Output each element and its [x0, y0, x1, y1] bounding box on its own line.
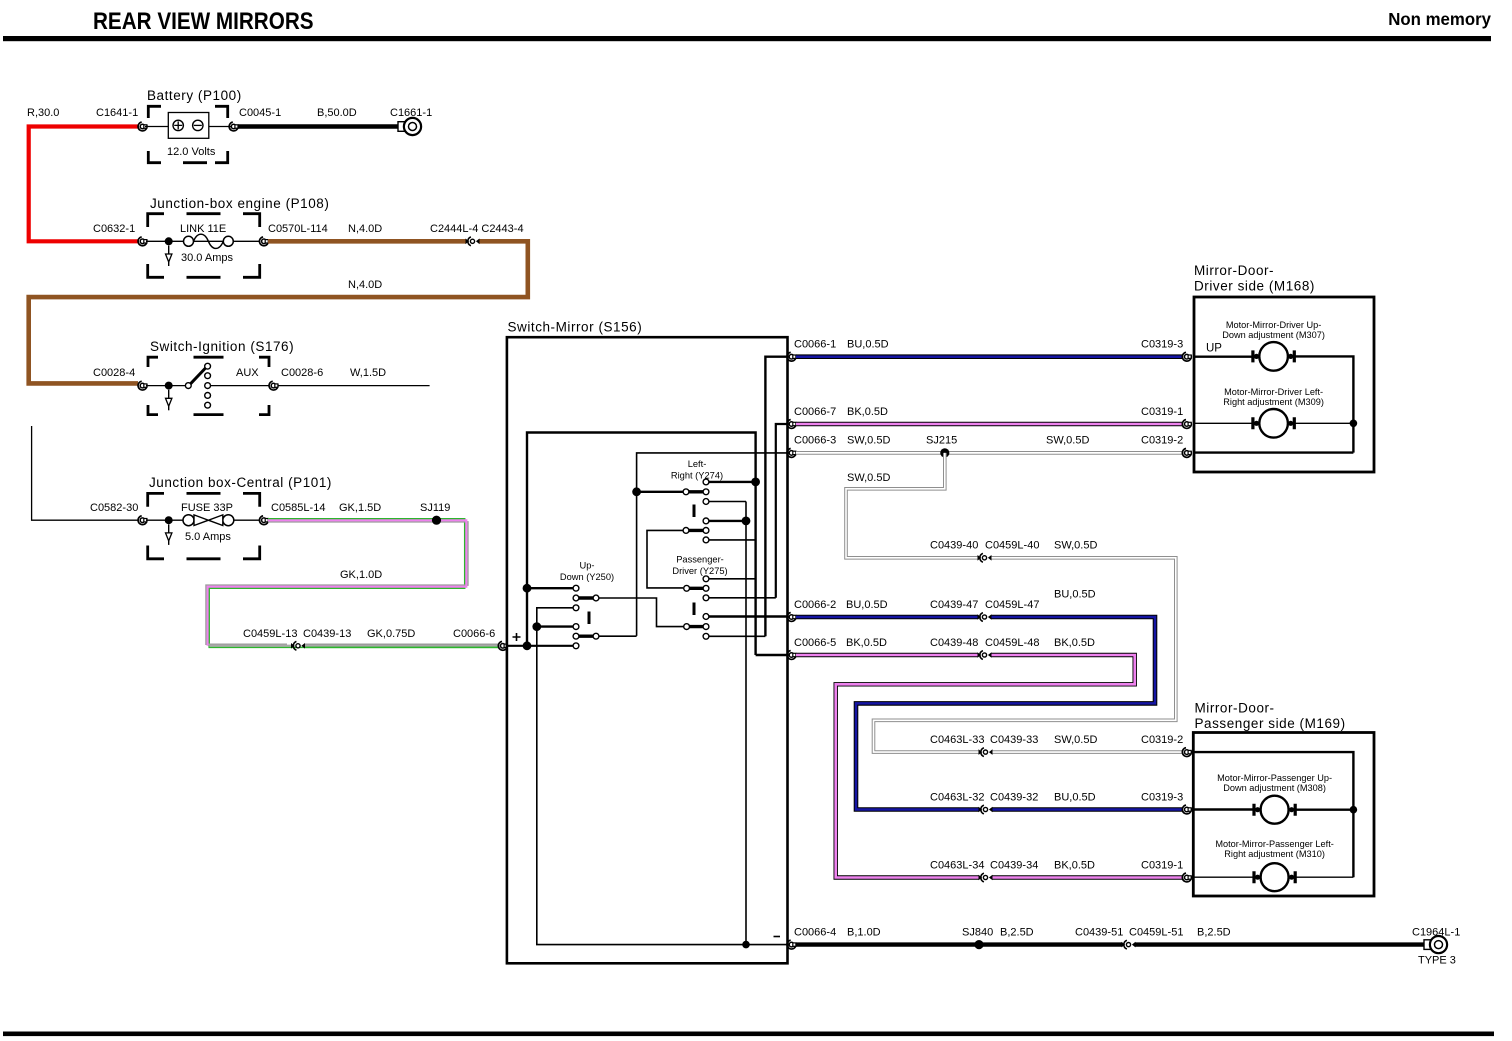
- svg-text:TYPE 3: TYPE 3: [1418, 955, 1456, 967]
- connector C0582-30: [138, 516, 147, 525]
- label M310: [1215, 839, 1333, 859]
- label BU,0.5D row1: [847, 339, 889, 351]
- connector C0066-1: [787, 352, 796, 361]
- label R,30.0: [27, 107, 59, 119]
- connector C0319-3 passenger: [1182, 805, 1191, 814]
- label BU,0.5D row7: [1054, 791, 1096, 803]
- svg-text:GK,0.75D: GK,0.75D: [367, 628, 415, 640]
- svg-text:C1641-1: C1641-1: [96, 107, 138, 119]
- svg-text:SW,0.5D: SW,0.5D: [1054, 540, 1097, 552]
- label B,1.0D: [847, 926, 881, 938]
- svg-text:C0319-2: C0319-2: [1141, 435, 1183, 447]
- svg-text:SJ119: SJ119: [420, 502, 450, 514]
- wire Y250 contact4 left: [537, 625, 573, 627]
- junction dot M168: [1350, 420, 1358, 428]
- svg-text:Junction-box engine (P108): Junction-box engine (P108): [150, 196, 329, 211]
- label 5.0 Amps: [185, 531, 231, 543]
- svg-text:Left-: Left-: [688, 459, 707, 469]
- wire GK,0.75D grey-green: [209, 644, 499, 647]
- label C0439-33: [990, 734, 1038, 746]
- wire Y275 contact C to C0066-2: [709, 615, 787, 617]
- svg-text:Motor-Mirror-Passenger Left-: Motor-Mirror-Passenger Left-: [1215, 839, 1333, 849]
- connector C0045-1: [229, 122, 238, 131]
- wire R,30.0 red from C1641-1 to C0632-1: [29, 127, 139, 242]
- label M309: [1223, 387, 1324, 407]
- junction dot Y274 bar: [632, 487, 641, 496]
- label Junction box-Central (P101): [149, 475, 332, 490]
- connector C0066-2: [787, 613, 796, 622]
- svg-text:C0319-3: C0319-3: [1141, 791, 1183, 803]
- svg-text:Down adjustment (M307): Down adjustment (M307): [1222, 330, 1325, 340]
- svg-text:C0439-33: C0439-33: [990, 734, 1038, 746]
- top rule: [3, 36, 1491, 41]
- wire M168 common bottom: [1194, 451, 1353, 453]
- fuse arrow S176: [166, 390, 172, 411]
- svg-text:W,1.5D: W,1.5D: [350, 367, 386, 379]
- connector C0319-2 passenger: [1182, 748, 1191, 757]
- splice SJ840: [974, 940, 983, 949]
- wire Y274 contact C right: [709, 520, 746, 522]
- svg-text:C0066-5: C0066-5: [794, 637, 836, 649]
- label SW,0.5D branch: [847, 472, 890, 484]
- svg-text:GK,1.0D: GK,1.0D: [340, 569, 382, 581]
- label C0066-2: [794, 599, 836, 611]
- svg-text:FUSE 33P: FUSE 33P: [181, 502, 233, 514]
- svg-text:B,50.0D: B,50.0D: [317, 107, 357, 119]
- label C0066-7: [794, 406, 836, 418]
- wire Y275 bar2 to Y250 link: [599, 598, 684, 627]
- svg-text:BU,0.5D: BU,0.5D: [1054, 589, 1096, 601]
- label minus: [774, 936, 781, 938]
- label C0439-51: [1075, 926, 1123, 938]
- motor M309: [1253, 409, 1294, 438]
- connector C0028-4: [138, 381, 147, 390]
- wire Y250 contact3 left: [537, 608, 573, 627]
- mirror-door driver M168 box: [1194, 297, 1374, 472]
- label Switch-Ignition (S176): [150, 339, 294, 354]
- svg-text:Down adjustment (M308): Down adjustment (M308): [1223, 783, 1326, 793]
- label 30.0 Amps: [181, 252, 233, 264]
- label B,2.5D first: [1000, 926, 1034, 938]
- label BU,0.5D row4: [846, 599, 888, 611]
- svg-text:C0439-40: C0439-40: [930, 540, 978, 552]
- connector C0066-5: [787, 651, 796, 660]
- label C0459L-40: [985, 540, 1039, 552]
- fuse arrow P101: [166, 524, 172, 545]
- wire M169 common top: [1193, 752, 1353, 877]
- label C2444L-4 C2443-4: [430, 223, 524, 235]
- svg-text:AUX: AUX: [236, 367, 259, 379]
- battery P100 dashed box: [148, 106, 227, 162]
- junction dot P101: [165, 516, 173, 524]
- contact Y275 C: [703, 614, 709, 620]
- wire Y274 bar to C0066-3 vertical: [637, 491, 683, 493]
- wire B,50.0D battery to ground ring: [238, 124, 399, 128]
- svg-text:Motor-Mirror-Driver Up-: Motor-Mirror-Driver Up-: [1226, 320, 1321, 330]
- splice SJ119: [432, 516, 441, 525]
- svg-text:BU,0.5D: BU,0.5D: [1054, 791, 1096, 803]
- switch-mirror S156 box: [507, 337, 788, 963]
- contact Y275 B: [703, 595, 709, 601]
- svg-text:C0570L-114: C0570L-114: [268, 223, 328, 235]
- svg-text:BK,0.5D: BK,0.5D: [1054, 859, 1095, 871]
- label C0582-30: [90, 502, 138, 514]
- svg-text:N,4.0D: N,4.0D: [348, 223, 382, 235]
- wire S156 internal C0066-1 feed: [765, 357, 787, 637]
- svg-text:C0459L-40: C0459L-40: [985, 540, 1039, 552]
- svg-text:C0319-2: C0319-2: [1141, 734, 1183, 746]
- svg-text:C0585L-14: C0585L-14: [271, 502, 325, 514]
- svg-text:BU,0.5D: BU,0.5D: [846, 599, 888, 611]
- wire Y274 contact B right: [709, 501, 746, 503]
- label GK,0.75D: [367, 628, 415, 640]
- junction dot Y274 C: [742, 517, 751, 526]
- label Battery (P100): [147, 88, 242, 103]
- svg-text:C0319-3: C0319-3: [1141, 339, 1183, 351]
- label Junction-box engine (P108): [150, 196, 329, 211]
- svg-text:GK,1.5D: GK,1.5D: [339, 502, 381, 514]
- switch bar Y275 lower: [684, 624, 709, 630]
- svg-text:C0066-3: C0066-3: [794, 435, 836, 447]
- svg-text:C0582-30: C0582-30: [90, 502, 138, 514]
- battery cell symbol: [145, 113, 231, 139]
- contact Y250 c3: [573, 605, 579, 611]
- svg-text:C0439-13: C0439-13: [303, 628, 351, 640]
- label C0632-1: [93, 223, 135, 235]
- label C0570L-114: [268, 223, 328, 235]
- label C0028-6: [281, 367, 323, 379]
- connector C0066-4: [787, 940, 796, 949]
- svg-text:Driver side (M168): Driver side (M168): [1194, 279, 1315, 294]
- svg-text:C0463L-33: C0463L-33: [930, 734, 984, 746]
- label BK,0.5D row8: [1054, 859, 1095, 871]
- inline connector C0439-51 C0459L-51: [1122, 940, 1136, 949]
- label C0066-4: [794, 926, 836, 938]
- svg-text:C0066-4: C0066-4: [794, 926, 836, 938]
- label C0439-40: [930, 540, 978, 552]
- wire Y250 bar2 right link: [599, 635, 637, 637]
- svg-text:Right (Y274): Right (Y274): [671, 471, 723, 481]
- label BK,0.5D row2: [847, 406, 888, 418]
- wire BU,0.5D driver up-down: [796, 354, 1183, 359]
- connector C0319-1: [1182, 420, 1191, 429]
- connector C0028-6: [269, 381, 278, 390]
- fuse arrow P108: [166, 246, 172, 267]
- inline connector C0439-48 C0459L-48: [978, 651, 992, 660]
- wire W,1.5D: [278, 385, 430, 387]
- label C1964L-1: [1412, 926, 1460, 938]
- svg-text:SW,0.5D: SW,0.5D: [847, 472, 890, 484]
- switch bar Y274 lower: [683, 528, 709, 534]
- ring terminal C1964L-1: [1424, 936, 1447, 953]
- svg-text:C0439-48: C0439-48: [930, 637, 978, 649]
- wire S156 internal minus bus: [537, 627, 787, 945]
- wire GK,1.5D / GK,1.0D green-pink: [206, 519, 500, 648]
- label N,4.0D: [348, 223, 382, 235]
- label C0319-2: [1141, 435, 1183, 447]
- svg-text:BU,0.5D: BU,0.5D: [847, 339, 889, 351]
- label C0463L-34: [930, 859, 984, 871]
- svg-text:C0459L-47: C0459L-47: [985, 599, 1039, 611]
- wire S156 internal C0066-7 feed: [776, 424, 787, 598]
- wire Y275 contact A right: [709, 578, 756, 580]
- contact Y250 c4: [573, 624, 579, 630]
- svg-text:SW,0.5D: SW,0.5D: [1054, 734, 1097, 746]
- svg-text:C0066-6: C0066-6: [453, 628, 495, 640]
- junction dot Y250 c4: [532, 622, 541, 631]
- svg-text:C0066-1: C0066-1: [794, 339, 836, 351]
- label Left- Right (Y274): [671, 459, 723, 481]
- svg-text:Down (Y250): Down (Y250): [560, 572, 614, 582]
- svg-text:R,30.0: R,30.0: [27, 107, 59, 119]
- label SW,0.5D row3b: [1046, 435, 1089, 447]
- motor M307: [1253, 342, 1294, 371]
- inline connector C2444L-4 C2443-4: [466, 237, 480, 246]
- svg-text:C0463L-32: C0463L-32: [930, 791, 984, 803]
- svg-text:C0439-51: C0439-51: [1075, 926, 1123, 938]
- connector C0632-1: [138, 237, 147, 246]
- label GK,1.0D: [340, 569, 382, 581]
- label GK,1.5D: [339, 502, 381, 514]
- wire S156 internal supply bus: [527, 433, 756, 656]
- svg-text:C0439-32: C0439-32: [990, 791, 1038, 803]
- label C0066-6: [453, 628, 495, 640]
- svg-text:Driver (Y275): Driver (Y275): [672, 566, 727, 576]
- wire M169 left-right feed: [1193, 876, 1257, 878]
- junction box central P101 dashed box: [148, 493, 260, 558]
- label B,2.5D second: [1197, 926, 1231, 938]
- switch bar Y250 lower: [573, 633, 599, 639]
- label BK,0.5D row5: [846, 637, 887, 649]
- svg-text:C0439-34: C0439-34: [990, 859, 1038, 871]
- contact Y274 B: [703, 499, 709, 505]
- link 11E fuse symbol: [146, 234, 259, 248]
- svg-text:C0439-47: C0439-47: [930, 599, 978, 611]
- motor M308: [1254, 796, 1295, 824]
- connector C1641-1: [138, 122, 147, 131]
- svg-text:Battery (P100): Battery (P100): [147, 88, 242, 103]
- label C0319-1 passenger: [1141, 859, 1183, 871]
- wire Y250 contact1 left: [527, 587, 573, 589]
- wire M169 up-down feed: [1193, 808, 1257, 810]
- label C1641-1: [96, 107, 138, 119]
- svg-text:Up-: Up-: [580, 561, 595, 571]
- label UP: [1206, 343, 1222, 355]
- inline connector C0463L-34 C0439-34: [979, 873, 993, 882]
- label TYPE 3: [1418, 955, 1456, 967]
- svg-text:SJ840: SJ840: [962, 926, 993, 938]
- label SJ840: [962, 926, 993, 938]
- junction dot minus bus: [742, 941, 750, 949]
- svg-text:Right adjustment (M309): Right adjustment (M309): [1223, 397, 1324, 407]
- svg-text:SW,0.5D: SW,0.5D: [1046, 435, 1089, 447]
- label LINK 11E: [180, 223, 226, 235]
- wire Y250 contact6 input: [507, 645, 573, 647]
- wire N,4.0D brown engine run: [29, 241, 528, 383]
- svg-text:Passenger-: Passenger-: [676, 555, 724, 565]
- svg-text:C0028-6: C0028-6: [281, 367, 323, 379]
- svg-text:12.0 Volts: 12.0 Volts: [167, 146, 216, 158]
- junction dot S176: [165, 382, 173, 390]
- label FUSE 33P: [181, 502, 233, 514]
- wire S156 internal C0066-5 feed elbow: [756, 654, 787, 656]
- junction dot M169: [1350, 806, 1358, 814]
- inline connector C0439-47 C0459L-47: [978, 613, 992, 622]
- svg-text:N,4.0D: N,4.0D: [348, 279, 382, 291]
- label SJ215: [926, 435, 957, 447]
- label plus: [513, 633, 521, 641]
- tick Y275: [693, 603, 696, 616]
- label C0439-32: [990, 791, 1038, 803]
- label Passenger- Driver (Y275): [672, 555, 727, 577]
- tick Y274: [693, 505, 696, 518]
- label N,4.0D second: [348, 279, 382, 291]
- wire feed to C0582-30: [32, 426, 138, 520]
- switch bar Y250 upper: [573, 595, 599, 601]
- contact Y250 c1: [573, 585, 579, 591]
- svg-text:Mirror-Door-: Mirror-Door-: [1195, 701, 1275, 716]
- label C0459L-47: [985, 599, 1039, 611]
- connector C0319-3: [1182, 352, 1191, 361]
- svg-text:C0632-1: C0632-1: [93, 223, 135, 235]
- svg-text:LINK 11E: LINK 11E: [180, 223, 226, 235]
- title REAR VIEW MIRRORS: [93, 8, 314, 35]
- fuse 33P symbol: [146, 515, 259, 526]
- inline connector C0459L-13 C0439-13: [291, 641, 305, 650]
- label Up- Down (Y250): [560, 561, 614, 583]
- connector C0319-1 passenger: [1182, 873, 1191, 882]
- label C0319-3 passenger: [1141, 791, 1183, 803]
- label W,1.5D: [350, 367, 386, 379]
- svg-text:Passenger side (M169): Passenger side (M169): [1195, 716, 1346, 731]
- svg-text:B,2.5D: B,2.5D: [1197, 926, 1231, 938]
- svg-text:C0463L-34: C0463L-34: [930, 859, 984, 871]
- wire BK,0.5D driver left-right: [796, 422, 1183, 426]
- svg-text:C0066-2: C0066-2: [794, 599, 836, 611]
- label C0459L-51: [1129, 926, 1183, 938]
- header note Non memory: [1388, 8, 1491, 29]
- label Switch-Mirror (S156): [508, 320, 643, 335]
- svg-text:B,1.0D: B,1.0D: [847, 926, 881, 938]
- connector C0066-3: [787, 449, 796, 458]
- label C0459L-48: [985, 637, 1039, 649]
- svg-text:BK,0.5D: BK,0.5D: [846, 637, 887, 649]
- junction dot Y274 A: [751, 478, 760, 487]
- wire Y274 contact A to bus: [709, 481, 756, 483]
- connector C0570L-114: [259, 237, 268, 246]
- svg-text:C1964L-1: C1964L-1: [1412, 926, 1460, 938]
- svg-text:C0319-1: C0319-1: [1141, 859, 1183, 871]
- label SJ119: [420, 502, 450, 514]
- wire SW,0.5D driver common: [796, 451, 1183, 455]
- svg-text:Non memory: Non memory: [1388, 8, 1491, 29]
- label C0028-4: [93, 367, 135, 379]
- contact Y275 D: [703, 633, 709, 639]
- svg-text:SW,0.5D: SW,0.5D: [847, 435, 890, 447]
- bottom rule: [3, 1032, 1494, 1037]
- ring terminal C1661-1: [398, 118, 421, 135]
- label C0319-3: [1141, 339, 1183, 351]
- label C0319-2 passenger: [1141, 734, 1183, 746]
- junction dot P108: [165, 237, 173, 245]
- tick Y250: [588, 612, 591, 625]
- svg-text:Switch-Mirror (S156): Switch-Mirror (S156): [508, 320, 643, 335]
- label AUX: [236, 367, 259, 379]
- wire BU,0.5D passenger up-down: [796, 617, 1183, 810]
- contact Y250 c6: [573, 643, 579, 649]
- wire Y274 bar2 to Y275 link: [647, 530, 683, 588]
- switch bar Y275 upper: [684, 585, 709, 591]
- label C0463L-32: [930, 791, 984, 803]
- wire M168 left-right feed: [1194, 422, 1256, 424]
- svg-text:C0066-7: C0066-7: [794, 406, 836, 418]
- wire SW,0.5D passenger branch: [846, 453, 1183, 752]
- label SW,0.5D mid: [1054, 540, 1097, 552]
- label C0439-34: [990, 859, 1038, 871]
- connector C0319-2: [1182, 449, 1191, 458]
- switch-ignition S176 dashed box: [148, 357, 269, 414]
- svg-text:C0459L-48: C0459L-48: [985, 637, 1039, 649]
- label Mirror-Door- Driver side (M168): [1194, 263, 1315, 294]
- svg-text:C0028-4: C0028-4: [93, 367, 135, 379]
- inline connector C0463L-33 C0439-33: [979, 748, 993, 757]
- wire M309 to common: [1291, 422, 1353, 424]
- svg-text:Right adjustment (M310): Right adjustment (M310): [1224, 849, 1325, 859]
- svg-text:SJ215: SJ215: [926, 435, 957, 447]
- mirror-door passenger M169 box: [1193, 733, 1374, 897]
- wire M307 to common: [1291, 356, 1353, 452]
- junction dot Y250 c6: [523, 641, 532, 650]
- svg-text:C2444L-4 C2443-4: C2444L-4 C2443-4: [430, 223, 524, 235]
- label BU,0.5D upper: [1054, 589, 1096, 601]
- svg-text:5.0 Amps: 5.0 Amps: [185, 531, 231, 543]
- motor M310: [1254, 863, 1295, 891]
- wire Y274 contact D right: [709, 539, 756, 541]
- wire B,1.0D B,2.5D ground run: [796, 942, 1426, 946]
- label C0066-1: [794, 339, 836, 351]
- wire M168 up-down feed: [1194, 356, 1256, 358]
- label C0439-48: [930, 637, 978, 649]
- junction dot Y250 c1: [523, 584, 532, 593]
- svg-text:Motor-Mirror-Passenger Up-: Motor-Mirror-Passenger Up-: [1217, 773, 1332, 783]
- label C0066-5: [794, 637, 836, 649]
- splice SJ215: [940, 448, 949, 457]
- svg-text:UP: UP: [1206, 343, 1222, 355]
- label M308: [1217, 773, 1332, 793]
- label SW,0.5D row3a: [847, 435, 890, 447]
- inline connector C0439-40 C0459L-40: [978, 553, 992, 562]
- contact Y274 A: [703, 479, 709, 485]
- svg-text:BK,0.5D: BK,0.5D: [847, 406, 888, 418]
- label B,50.0D: [317, 107, 357, 119]
- svg-text:30.0 Amps: 30.0 Amps: [181, 252, 233, 264]
- label C0066-3: [794, 435, 836, 447]
- label 12.0 Volts: [167, 146, 216, 158]
- label C0439-13: [303, 628, 351, 640]
- svg-text:Junction box-Central (P101): Junction box-Central (P101): [149, 475, 332, 490]
- svg-text:C1661-1: C1661-1: [390, 107, 432, 119]
- label C0585L-14: [271, 502, 325, 514]
- label C0045-1: [239, 107, 281, 119]
- svg-text:C0045-1: C0045-1: [239, 107, 281, 119]
- wire M310 to common: [1292, 876, 1353, 878]
- label C0463L-33: [930, 734, 984, 746]
- ignition switch internals: [146, 363, 270, 408]
- contact Y274 D: [703, 537, 709, 543]
- label C0459L-13: [243, 628, 297, 640]
- label C1661-1: [390, 107, 432, 119]
- connector C0585L-14: [259, 516, 268, 525]
